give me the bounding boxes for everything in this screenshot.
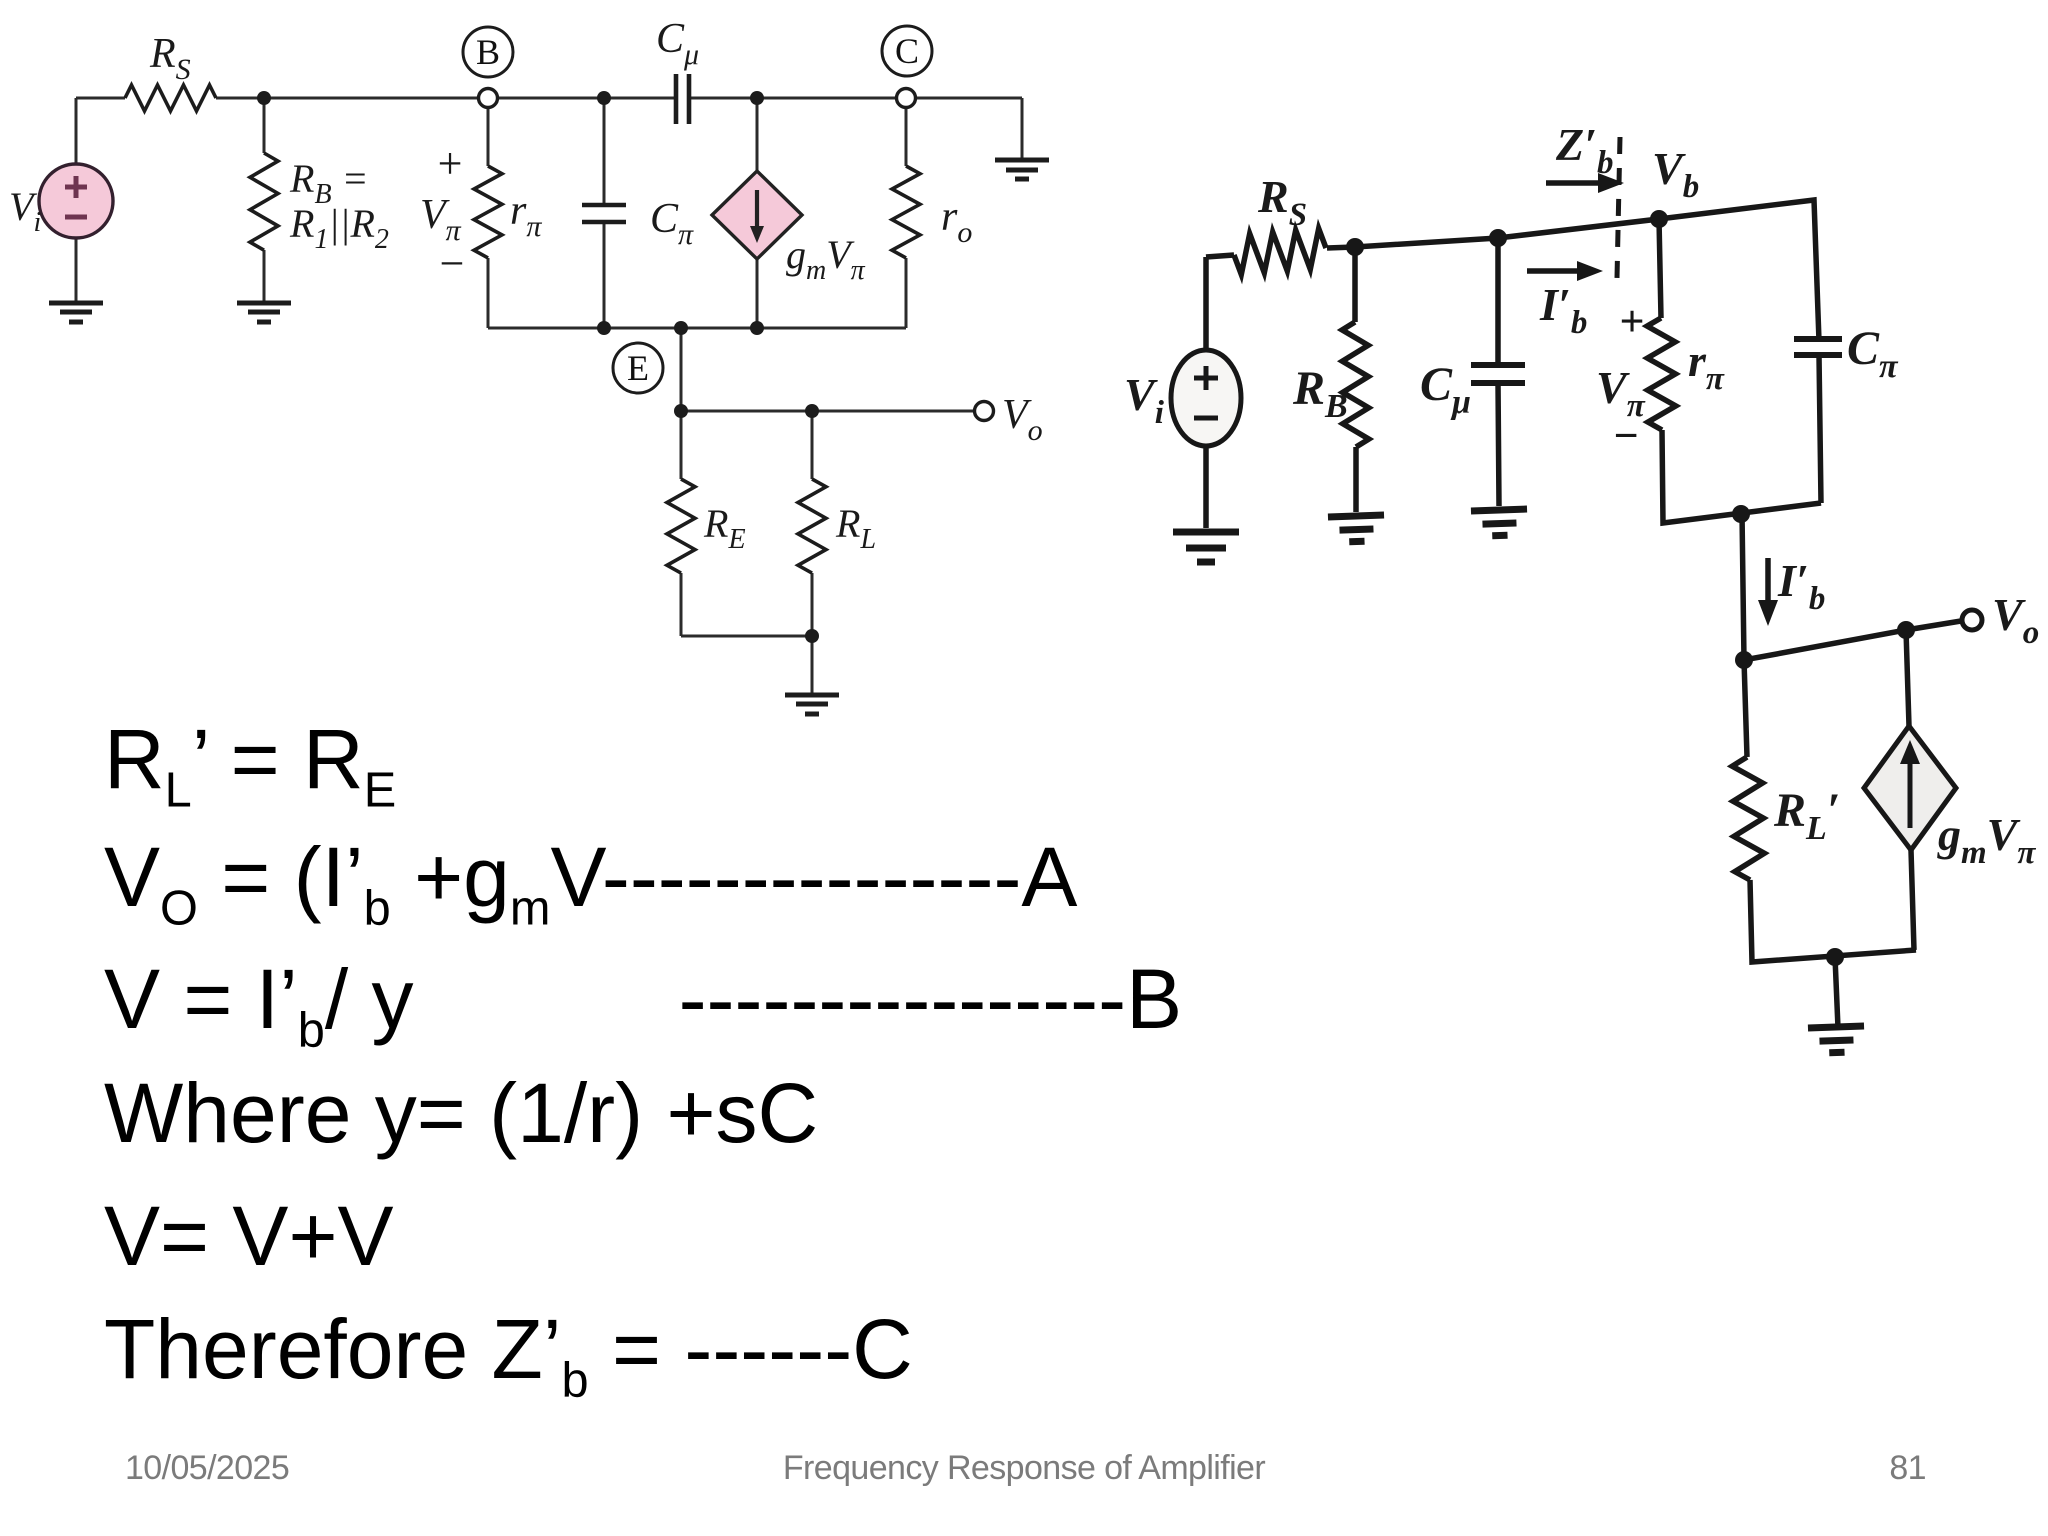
svg-text:ro: ro [941,194,972,249]
svg-text:+: + [438,139,463,188]
svg-text:Z′b: Z′b [1555,119,1614,181]
svg-text:−: − [440,239,465,288]
svg-text:RL: RL [835,501,876,555]
svg-text:I′b: I′b [1539,279,1587,341]
svg-text:Vo: Vo [1992,589,2039,651]
svg-text:RB: RB [1292,362,1348,425]
svg-text:C: C [895,31,919,71]
svg-text:Cπ: Cπ [1847,322,1899,385]
svg-text:E: E [627,348,649,388]
svg-text:RS: RS [1257,171,1307,233]
svg-text:rπ: rπ [1688,335,1725,397]
svg-text:RE: RE [703,501,746,555]
svg-text:RL′: RL′ [1773,784,1840,847]
svg-text:RS: RS [149,31,191,86]
svg-text:Vb: Vb [1652,143,1699,205]
svg-text:Vo: Vo [1002,392,1043,447]
svg-text:Cμ: Cμ [1420,358,1471,421]
svg-text:Vi: Vi [9,184,41,238]
svg-text:B: B [476,32,500,72]
svg-text:R1||R2: R1||R2 [289,201,389,255]
svg-text:gmVπ: gmVπ [786,232,866,286]
svg-text:Cμ: Cμ [656,16,699,71]
svg-text:+: + [1619,297,1644,346]
svg-text:gmVπ: gmVπ [1937,809,2036,871]
svg-text:−: − [1613,411,1638,460]
svg-text:rπ: rπ [510,188,542,243]
svg-text:Cπ: Cπ [650,196,694,251]
svg-text:I′b: I′b [1777,555,1825,617]
svg-text:Vi: Vi [1124,369,1165,431]
